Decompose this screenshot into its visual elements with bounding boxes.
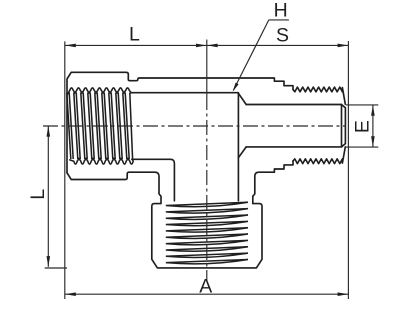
bottom face extension line (left) [45, 267, 67, 269]
svg-text:S: S [276, 24, 289, 46]
male pipe end face [342, 105, 346, 147]
vertical L bottom arrow [47, 256, 51, 267]
run cylinder bottom line + branch bore left wall [132, 159, 175, 201]
E top arrow [371, 105, 375, 116]
female internal thread detail (left end) [68, 88, 133, 164]
right extension line [347, 41, 349, 299]
dimension lines [45, 20, 379, 299]
branch bore right wall / male shoulder line [237, 93, 239, 201]
A left arrow [65, 292, 76, 296]
dim A line [65, 293, 349, 295]
svg-text:E: E [352, 120, 374, 133]
male end shoulder chamfer top [238, 93, 246, 104]
E bottom arrow [371, 136, 375, 147]
arrowheads [47, 44, 375, 296]
dim E line [372, 105, 374, 147]
vertical L top arrow [47, 126, 51, 137]
centerlines [43, 40, 346, 282]
male end shoulder chamfer bottom [238, 147, 246, 158]
female end bottom + branch hex + run body bottom outline [67, 161, 293, 268]
female thread crest zigzag bottom [70, 158, 133, 164]
svg-text:L: L [27, 189, 49, 200]
L left arrow [65, 44, 76, 48]
female thread flank lines [67, 93, 133, 159]
run centerline [43, 125, 346, 127]
male nipple top line [246, 104, 341, 106]
L right arrow [196, 44, 207, 48]
branch centerline [206, 95, 208, 281]
svg-text:A: A [199, 275, 212, 297]
male thread crest zigzag bottom [293, 147, 345, 164]
dim L horizontal line [65, 44, 207, 46]
male nipple bottom line [246, 146, 341, 148]
svg-text:H: H [274, 0, 288, 22]
branch female thread bands [166, 202, 248, 264]
S right arrow [338, 44, 349, 48]
E extension lines [346, 105, 379, 147]
branch center extension line (to dims) [206, 40, 208, 96]
male thread crest zigzag top [293, 87, 345, 104]
dim L vertical line [47, 126, 49, 267]
svg-text:L: L [129, 24, 140, 46]
female end + run body top outline [67, 72, 293, 173]
H leader arrow [233, 83, 239, 92]
dim S line [207, 44, 349, 46]
H leader line [233, 20, 289, 90]
run cylinder top line [131, 92, 238, 94]
female thread crest zigzag top [68, 88, 131, 94]
left extension line [64, 41, 66, 299]
S left arrow [207, 44, 218, 48]
A right arrow [338, 292, 349, 296]
